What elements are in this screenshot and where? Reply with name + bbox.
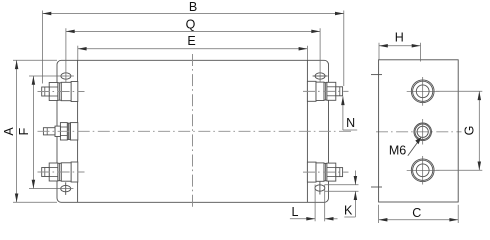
svg-text:F: F — [17, 127, 31, 135]
svg-text:N: N — [346, 116, 355, 130]
svg-text:A: A — [2, 127, 16, 136]
svg-text:H: H — [395, 30, 404, 44]
svg-text:B: B — [189, 0, 197, 14]
svg-text:E: E — [187, 34, 195, 48]
svg-text:M6: M6 — [389, 143, 406, 157]
svg-text:K: K — [344, 204, 353, 218]
svg-text:Q: Q — [186, 18, 196, 32]
svg-text:G: G — [463, 126, 477, 136]
svg-text:C: C — [412, 206, 421, 220]
svg-text:L: L — [292, 205, 299, 219]
